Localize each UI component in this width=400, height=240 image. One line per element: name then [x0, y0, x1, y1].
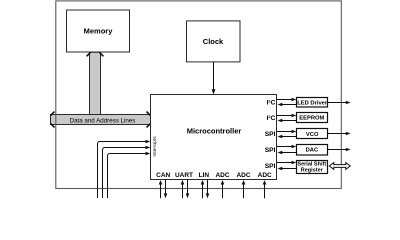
- VCO output arrow: [328, 132, 351, 136]
- LIN in arrow: [201, 180, 205, 198]
- svg-text:Memory: Memory: [84, 26, 114, 35]
- svg-text:SPI: SPI: [265, 163, 276, 170]
- clock block: [187, 21, 241, 62]
- data and address lines bus (horizontal): [51, 112, 151, 128]
- svg-text:I2C: I2C: [267, 99, 276, 107]
- interrupt line 1: [98, 140, 151, 198]
- CAN in arrow: [159, 180, 163, 198]
- svg-text:I2C: I2C: [267, 114, 276, 122]
- svg-text:CAN: CAN: [156, 172, 170, 179]
- svg-text:VCO: VCO: [306, 132, 319, 138]
- svg-text:Clock: Clock: [203, 37, 224, 46]
- svg-text:Data and Address Lines: Data and Address Lines: [70, 117, 136, 124]
- svg-text:UART: UART: [175, 172, 193, 179]
- clock to microcontroller arrow: [212, 62, 216, 95]
- LED Driver block: [297, 98, 328, 108]
- VCO block: [297, 129, 328, 139]
- svg-text:Register: Register: [301, 168, 324, 174]
- LIN out arrow: [206, 180, 210, 199]
- serial shift register block: [297, 161, 328, 174]
- svg-text:SPI: SPI: [265, 131, 276, 138]
- svg-text:EEPROM: EEPROM: [299, 116, 324, 122]
- EEPROM block: [297, 113, 328, 123]
- interrupt line 2: [103, 146, 151, 198]
- SPI row 5 arrows: [277, 161, 297, 171]
- LED Driver output arrow: [328, 101, 351, 105]
- svg-text:LED Driver: LED Driver: [297, 100, 328, 106]
- svg-text:Serial Shift: Serial Shift: [297, 162, 326, 168]
- svg-text:LIN: LIN: [199, 172, 210, 179]
- memory block: [67, 10, 130, 52]
- UART in arrow: [181, 180, 185, 198]
- UART out arrow: [186, 180, 190, 199]
- svg-text:Interrupts: Interrupts: [152, 136, 158, 157]
- DAC output arrow: [328, 148, 351, 152]
- svg-text:Microcontroller: Microcontroller: [187, 127, 242, 136]
- svg-text:ADC: ADC: [258, 172, 272, 179]
- SPI row 3 arrows: [277, 130, 297, 139]
- microcontroller block: [151, 95, 277, 180]
- system boundary frame: [56, 1, 342, 189]
- serial shift register bidirectional bus arrow: [329, 163, 350, 170]
- CAN out arrow: [164, 180, 168, 199]
- ADC in arrow 1: [221, 180, 225, 198]
- interrupt line 3: [108, 152, 151, 198]
- ADC in arrow 3: [263, 180, 267, 198]
- I2C row 1 arrows: [277, 98, 297, 107]
- memory data bus (vertical): [87, 52, 104, 114]
- ADC in arrow 2: [242, 180, 246, 198]
- DAC block: [297, 145, 328, 156]
- I2C row 2 arrows: [277, 114, 297, 123]
- svg-text:ADC: ADC: [215, 172, 229, 179]
- svg-text:DAC: DAC: [306, 148, 319, 154]
- SPI row 4 arrows: [277, 145, 297, 155]
- svg-text:ADC: ADC: [236, 172, 250, 179]
- svg-text:SPI: SPI: [265, 147, 276, 154]
